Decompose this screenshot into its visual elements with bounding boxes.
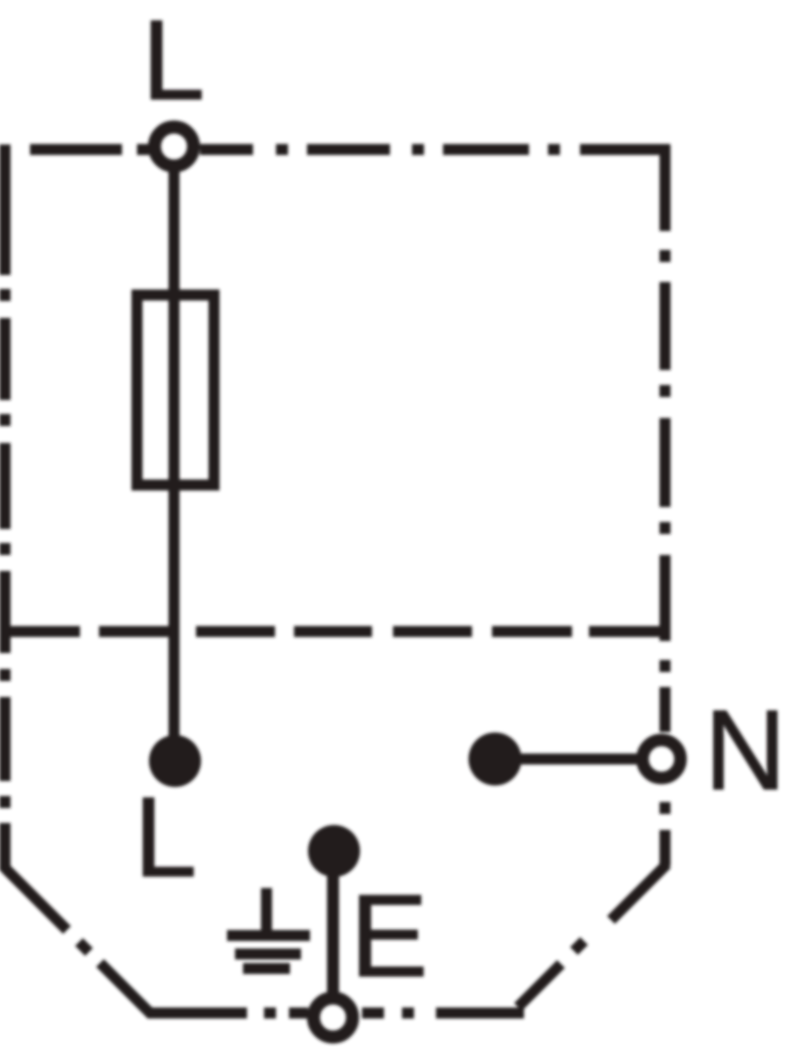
terminal E (open circle on enclosure bottom border) xyxy=(314,998,353,1037)
enclosure right border (dash-dot) xyxy=(660,145,671,867)
svg-text:N: N xyxy=(705,687,787,813)
junction dot N (internal neutral connection) xyxy=(469,733,522,786)
wire N: from internal dot to terminal N xyxy=(495,754,638,765)
enclosure bottom border (dash-dot) xyxy=(148,1008,524,1019)
terminal N (open circle on enclosure right border) xyxy=(643,740,681,778)
svg-text:L: L xyxy=(134,774,197,900)
enclosure bottom-right diagonal (dash-dot) xyxy=(518,864,667,1007)
fuse F1 (rectangle symbol) xyxy=(137,295,214,485)
svg-text:E: E xyxy=(350,870,428,1001)
junction dot E (internal earth connection) xyxy=(308,825,360,877)
enclosure left border (dash-dot) xyxy=(0,145,11,872)
ground symbol (earth) xyxy=(227,888,310,969)
dashed separator line (upper/lower section divider) xyxy=(8,626,660,637)
enclosure bottom-left diagonal (dash-dot) xyxy=(5,868,152,1015)
wire E: from internal dot down to terminal E xyxy=(327,851,339,994)
wire L: from terminal L1 down through fuse to internal dot xyxy=(169,170,180,737)
terminal L1 (open circle on enclosure top border) xyxy=(155,127,194,166)
svg-text:L: L xyxy=(142,0,205,123)
junction dot L (internal line connection) xyxy=(149,735,201,787)
enclosure top border (dash-dot) xyxy=(30,144,670,155)
